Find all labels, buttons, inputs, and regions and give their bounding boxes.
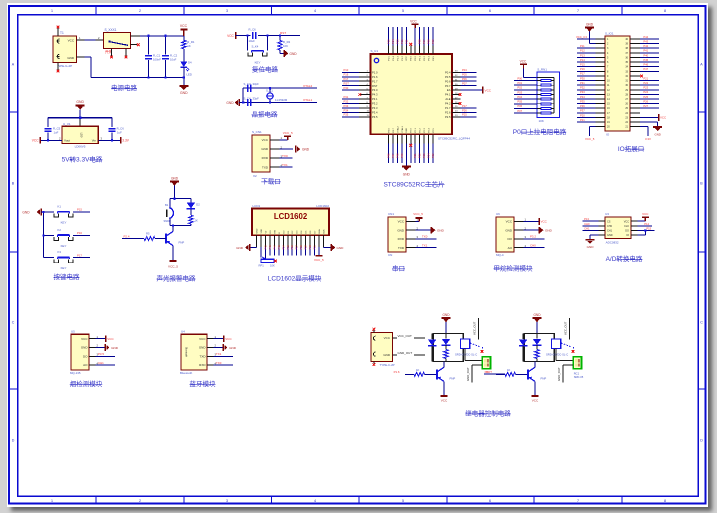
power VCC U6 pin1	[523, 218, 547, 225]
TYPE-C contact arcs	[373, 336, 375, 356]
net label P24	[124, 234, 130, 238]
power GND U6 pin2	[523, 227, 552, 234]
LCD module body	[252, 209, 329, 236]
relay emitter wire	[443, 381, 445, 395]
module Bluetooth ref	[180, 371, 193, 375]
capacitor R_C2 labels	[170, 53, 178, 61]
ADC pin stubs	[599, 221, 638, 235]
wire reset top rail	[236, 35, 300, 37]
power GND right reset	[284, 50, 297, 57]
power jack top pin	[57, 28, 59, 36]
capacitor R_C1 vertical leads	[147, 36, 149, 78]
caption relay control	[465, 409, 511, 418]
power GND relay	[442, 313, 451, 334]
LCD left gnd wire	[250, 247, 256, 249]
terminal pads	[575, 359, 579, 366]
connector CN1 pin stubs	[406, 218, 419, 248]
relay transistor base wire	[496, 373, 505, 375]
caption crystal circuit	[252, 110, 279, 119]
MCU designator	[371, 49, 379, 53]
TYPE-C vcc out wire	[393, 334, 426, 338]
cap S_C3	[248, 85, 251, 92]
cap S_C4 labels	[244, 96, 260, 100]
connector CN1 designator	[388, 212, 394, 216]
connector U6 ref label	[496, 253, 504, 257]
regulator U_V1 gnd stub	[79, 118, 81, 127]
net label VCC_OUT vertical	[473, 321, 477, 335]
wire bottom rail power	[91, 57, 184, 77]
IO header body	[605, 36, 630, 131]
relay coil resistor	[444, 350, 448, 362]
power GND CN1 pin2	[415, 227, 444, 234]
power VCC CN1 pin1	[413, 212, 423, 221]
wire LED to gnd rail	[183, 67, 185, 86]
wire resistor to base	[425, 373, 437, 375]
connector CN1 body	[388, 217, 406, 252]
ADC wire CH0	[582, 222, 598, 226]
VCC input bar	[32, 137, 40, 144]
power GND IO right	[653, 127, 662, 137]
key K3	[54, 257, 73, 262]
power GND MCU	[402, 167, 411, 177]
IO header ref	[606, 132, 610, 136]
module MQ-135 ref	[70, 371, 81, 375]
wire P17 between relays	[484, 370, 505, 374]
relay coil top wire	[432, 334, 446, 339]
key S_K4 designator	[252, 45, 259, 49]
connector U6 designator	[496, 212, 500, 216]
relay contact common wire	[569, 318, 571, 340]
switch lever symbol	[108, 40, 128, 45]
connector U6 pin names	[505, 220, 513, 250]
net label TX0 dl	[282, 154, 288, 158]
wire CN1 pin4 net TX1	[415, 244, 436, 248]
relay contact	[460, 339, 469, 348]
cap R_C6	[109, 129, 116, 132]
wire MQ-135 pin4 net CH1	[95, 361, 115, 365]
MCU right pin names	[445, 70, 451, 119]
connector CN1 pin names	[397, 220, 405, 250]
power GND LCD right	[331, 244, 344, 251]
resistor R5 alarm base	[144, 232, 155, 241]
caption MCU	[383, 179, 444, 188]
power VCC relay	[441, 396, 449, 403]
power VCC network	[520, 60, 527, 69]
alarm top rail	[170, 198, 191, 200]
terminal pads	[484, 359, 488, 366]
no-ERC mark jack bottom	[57, 70, 60, 73]
power jack T1 body	[53, 36, 76, 63]
module MQ-135 designator	[71, 330, 75, 334]
power VCC_5 alarm	[168, 261, 178, 269]
switch bottom pin b	[125, 48, 127, 56]
power VCC MQ-135 pin1	[95, 335, 114, 342]
crystal labels	[266, 88, 288, 102]
VCC bar reset	[227, 32, 236, 39]
wire vcc to network	[524, 69, 538, 78]
power VCC MCU top	[410, 19, 419, 28]
terminal gnd wire	[472, 365, 482, 383]
bottom rail left 3v3	[41, 139, 62, 141]
diode D2	[187, 203, 201, 209]
MCU pin1 marker	[374, 58, 378, 62]
wire CN1 pin3 net TX0	[415, 235, 436, 239]
power GND relay	[533, 313, 542, 334]
power jack pin GND name	[67, 56, 75, 60]
power GND LCD left	[236, 244, 249, 251]
key K2	[54, 235, 73, 240]
buzzer B1	[164, 203, 174, 223]
net label GND_OUT vertical	[466, 367, 470, 381]
connector U6 body	[496, 217, 514, 252]
potentiometer labels	[259, 264, 275, 268]
capacitor R_C1 labels	[153, 53, 161, 61]
resistor R_R2 labels	[283, 40, 291, 48]
caption power circuit	[111, 83, 138, 92]
wire dl pin4	[279, 166, 292, 168]
wire R4 to rail	[190, 224, 192, 226]
key K2 label	[61, 244, 67, 248]
resistor R_R1	[182, 40, 186, 49]
download pin stubs	[270, 136, 283, 167]
no-ERC mark MCU left	[358, 93, 361, 96]
no-ERC mark switch pin b	[125, 56, 128, 59]
IO header pin numbers	[607, 38, 629, 129]
power GND MQ-135 pin2	[95, 344, 118, 351]
switch S_XXX1 body	[103, 32, 130, 48]
TYPE-C top pin	[373, 328, 376, 333]
LED D4	[180, 62, 189, 71]
wire U6 pin3 net P3.2	[523, 235, 544, 239]
ADC wire DI	[638, 230, 646, 235]
network value	[539, 119, 544, 123]
wire key3 left	[44, 257, 55, 259]
MCU type label	[438, 137, 470, 141]
no-ERC mark MCU top	[409, 43, 412, 46]
net label relay input	[485, 370, 491, 374]
relay collector wire	[443, 361, 445, 367]
LCD designator	[253, 204, 261, 208]
crystal vertical link	[269, 88, 271, 102]
power jack T1 designator	[60, 31, 64, 35]
wire collector Q1	[0, 0, 1, 1]
buzzer B1 lead bottom	[169, 218, 171, 226]
no-ERC mark switch right	[137, 43, 140, 46]
terminal labels	[574, 371, 584, 379]
wire Bluetooth pin4 net TX0	[213, 361, 233, 365]
crystal S_X1	[266, 93, 274, 99]
cap R_C6 leads	[111, 118, 113, 141]
module Bluetooth pin names	[199, 337, 207, 367]
connector CN1 ref label	[388, 253, 392, 257]
pin number 3 reg	[101, 136, 103, 140]
resistor R_R1 lead top	[183, 36, 185, 41]
key S_K4 label	[255, 61, 261, 65]
resistor R_R2 lead	[279, 36, 281, 41]
ADC type label	[606, 241, 619, 245]
module Bluetooth designator	[181, 330, 185, 334]
wire R5 to base	[155, 238, 166, 240]
TYPE-C bottom pin	[373, 361, 376, 366]
caption alarm	[157, 274, 197, 283]
relay contact dashed throw	[561, 343, 574, 352]
module Bluetooth vertical text	[185, 347, 188, 358]
module MQ-135 body	[71, 334, 89, 370]
net label relay input	[394, 370, 400, 374]
no-ERC mark IO right	[640, 75, 643, 78]
caption IO header	[618, 144, 644, 153]
buzzer B1 lead top	[169, 199, 171, 208]
caption 串口	[392, 265, 405, 273]
wire Bluetooth pin3 net TX1	[213, 352, 233, 356]
cap R_C5	[45, 129, 52, 132]
caption download port	[261, 177, 281, 186]
wire key left vertical	[247, 36, 249, 51]
switch S_XXX1 designator	[105, 28, 117, 32]
pin number 2 switch	[98, 36, 100, 40]
bottom rail right 3v3	[98, 139, 120, 141]
net label key1	[77, 208, 82, 212]
LED D4 labels	[187, 61, 193, 77]
IO header right wires	[630, 35, 666, 141]
network common bus	[537, 77, 554, 113]
relay transistor PNP	[437, 367, 455, 381]
download designator	[252, 130, 262, 134]
MCU top pins and wires	[387, 27, 435, 54]
LCD pin wires and net labels	[256, 245, 323, 256]
wire dl pin2 gnd	[279, 148, 293, 150]
relay diode D5	[428, 334, 437, 362]
power jack bottom pin	[57, 63, 59, 71]
wire MQ-135 pin3 net P3.5	[95, 352, 115, 356]
TYPE-C type label	[380, 363, 395, 367]
relay collector wire	[534, 361, 536, 367]
ADC wire CH1	[582, 226, 598, 230]
relay coil box	[433, 334, 463, 362]
key K3 designator	[58, 250, 62, 254]
key K3 label	[61, 266, 67, 270]
pin number 2 reg	[59, 136, 61, 140]
relay diode D6	[533, 334, 542, 350]
net label key2	[77, 231, 82, 235]
wire key3 right	[73, 257, 90, 259]
regulator type label	[75, 145, 86, 149]
net label XTAL1	[303, 98, 313, 102]
cap R_C6 labels	[117, 126, 125, 134]
power GND dl	[296, 146, 310, 153]
wire jack gnd to rail	[76, 56, 91, 58]
wire R1 to LED	[183, 49, 185, 62]
switch S_XXX1 comment	[105, 49, 112, 54]
power GND Bluetooth pin2	[213, 344, 236, 351]
base wire Q1	[122, 238, 144, 240]
net label XTAL2	[303, 84, 313, 88]
relay coil resistor	[535, 350, 539, 362]
MCU bottom pins and wires	[387, 134, 435, 166]
power GND IO top	[585, 22, 595, 43]
MCU right pins and wires	[452, 68, 492, 117]
wire dl pin1 vcc	[279, 131, 293, 140]
connector U6 pin stubs	[514, 218, 527, 248]
caption LCD	[268, 274, 322, 283]
TYPE-C pin names	[383, 336, 391, 357]
alarm bottom rail	[170, 225, 191, 227]
caption smoke module	[70, 379, 103, 388]
relay contact NO wire	[556, 349, 573, 361]
MCU bottom pin names	[389, 125, 435, 132]
ADC wire CS	[582, 217, 598, 221]
download ref X2	[253, 174, 257, 178]
LCD right gnd wire	[324, 247, 331, 249]
caption 甲烷检测模块	[494, 264, 534, 273]
power VCC relay	[532, 396, 540, 403]
relay transistor base wire	[405, 373, 414, 375]
ADC wire DO	[638, 226, 655, 230]
ADC pin names	[607, 220, 629, 237]
wire key2 left	[44, 234, 55, 236]
no-ERC mark MCU right b	[459, 102, 462, 105]
power VCC Bluetooth pin1	[213, 335, 232, 342]
LCD pot wire	[261, 255, 265, 259]
keys vertical bus	[43, 212, 45, 258]
cap S_C4	[248, 99, 251, 106]
wire key right vertical	[267, 36, 269, 51]
crystal bottom rail	[243, 102, 317, 104]
crystal top rail	[243, 87, 317, 89]
regulator pin name Vin	[92, 139, 97, 143]
wire key1 left	[44, 211, 55, 213]
relay type text	[455, 352, 477, 356]
wire junction dots	[42, 35, 646, 237]
wire R2 to gnd	[280, 50, 284, 53]
no-ERC mark switch pin a	[110, 56, 113, 59]
pin number 1 jack	[79, 36, 81, 40]
MCU left pin names	[372, 70, 378, 119]
regulator vertical text	[80, 133, 84, 138]
relay contact	[551, 339, 560, 348]
key K1 designator	[58, 205, 62, 209]
ADC wire CLK	[638, 222, 652, 226]
key S_K4	[248, 51, 267, 56]
terminal gnd wire	[563, 365, 573, 383]
capacitor R_C2	[162, 56, 169, 59]
power jack T1 type label	[58, 64, 72, 68]
ADC designator	[605, 212, 609, 216]
caption reset circuit	[252, 65, 279, 74]
net label key3	[77, 253, 82, 257]
wire jack pin1 to switch	[76, 39, 103, 41]
no-ERC mark pot	[274, 260, 277, 263]
net label VCC_OUT vertical	[564, 321, 568, 335]
ADC wire VCC	[638, 212, 650, 221]
power VCC symbol	[180, 24, 188, 36]
potentiometer RP1	[261, 257, 274, 263]
wire key1 right	[73, 211, 90, 213]
capacitor R_C1	[145, 56, 152, 59]
download port body	[252, 135, 270, 172]
wire resistor to base	[516, 373, 528, 375]
caption 5v to 3v3	[62, 155, 103, 164]
cap reset labels	[249, 28, 257, 43]
no-ERC mark jack top	[57, 26, 60, 29]
net label GND_OUT vertical	[557, 367, 561, 381]
no-ERC relay contact	[572, 350, 575, 353]
switch bottom pin a	[110, 48, 112, 56]
terminal block green	[573, 357, 581, 369]
MCU U1 body	[371, 54, 453, 134]
terminal block green	[482, 357, 490, 369]
power jack pin VCC name	[68, 38, 75, 42]
wire switch to top rail	[131, 35, 184, 37]
relay base resistor	[414, 368, 425, 376]
module Bluetooth pin stubs	[207, 335, 217, 365]
ADC wire GND	[590, 235, 599, 239]
power GND ADC	[586, 240, 595, 249]
IO header left wires	[576, 35, 605, 141]
power GND symbol area2	[76, 100, 85, 118]
net label RST	[280, 31, 286, 35]
power GND alarm	[170, 177, 179, 199]
power GND keys	[22, 209, 43, 216]
cap S_C3 labels	[244, 82, 260, 86]
capacitor R_C2 vertical leads	[165, 36, 167, 78]
power GND left crystal	[226, 99, 243, 106]
caption ADC	[606, 254, 643, 263]
cap R_C5 labels	[53, 126, 61, 134]
LCD type label	[316, 204, 329, 208]
relay contact NO wire	[465, 349, 482, 361]
relay coil top wire	[523, 334, 537, 339]
TYPE-C jack body	[371, 333, 393, 362]
power jack contact arcs	[57, 39, 60, 59]
wire key2 right	[73, 234, 90, 236]
wire D2 to R4	[190, 209, 192, 215]
regulator pin name Vout	[64, 139, 70, 143]
wire rail to collector	[172, 226, 174, 232]
transistor Q1 PNP	[166, 231, 184, 245]
regulator U_V1 body	[62, 126, 98, 143]
network left wires	[514, 76, 537, 113]
MCU left pins and wires	[342, 68, 371, 117]
LCD pin names	[256, 228, 325, 233]
TYPE-C gnd out wire	[393, 351, 426, 355]
module Bluetooth body	[181, 334, 207, 370]
IO header designator	[605, 31, 614, 35]
relay diode D6	[442, 334, 451, 350]
relay base resistor	[505, 368, 516, 376]
network RN1 body	[537, 72, 559, 118]
relay emitter wire	[534, 381, 536, 395]
crystal left vertical	[242, 88, 244, 102]
caption key circuit	[54, 272, 81, 281]
module MQ-135 pin stubs	[89, 335, 99, 365]
wire U6 pin4 net CH0	[523, 244, 544, 248]
relay type text	[546, 352, 568, 356]
network resistor elements	[537, 80, 554, 114]
MCU top pin names	[389, 55, 435, 60]
top rail 3v3	[48, 117, 112, 119]
key K1	[54, 212, 73, 217]
no-ERC relay contact	[481, 350, 484, 353]
relay diode D5	[519, 334, 528, 362]
switch right pin stub	[131, 44, 137, 46]
caption network	[513, 127, 567, 136]
resistor R_R2	[278, 40, 282, 50]
power GND symbol area1	[179, 86, 188, 95]
power VCC_5 LCD	[314, 256, 324, 262]
cap R_C5 leads	[47, 118, 49, 141]
diode D2 lead top	[190, 199, 192, 203]
